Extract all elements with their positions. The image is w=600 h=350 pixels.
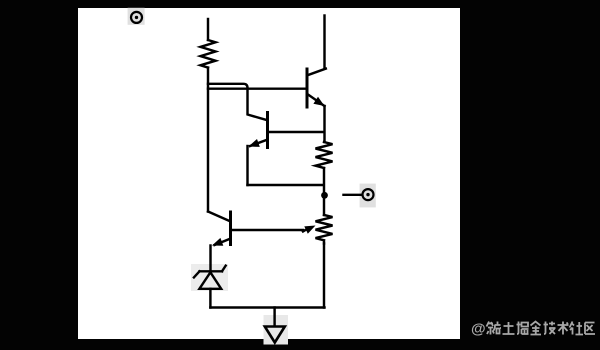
svg-text:@: @ [471,321,486,338]
